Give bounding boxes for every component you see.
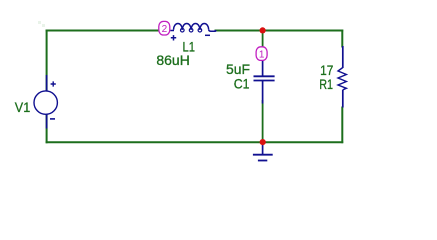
svg-text:86uH: 86uH — [156, 52, 189, 68]
plus mark V1 — [51, 81, 56, 86]
junction dot bottom — [260, 139, 266, 145]
L1 coil hump 3 — [191, 23, 200, 29]
resistor R1 — [338, 46, 346, 108]
node 2 bubble — [159, 21, 170, 35]
wire bottom — [46, 141, 344, 143]
voltage source V1 — [34, 75, 57, 129]
L1 coil tail — [209, 30, 216, 31]
L1 coil loop 3 — [198, 28, 202, 32]
minus mark V1 — [50, 118, 55, 120]
wire right lower — [341, 107, 343, 144]
wire left — [46, 30, 48, 144]
ground bar short — [258, 160, 267, 162]
wire right — [341, 30, 343, 48]
L1 coil loop 2 — [189, 28, 193, 32]
L1 coil loop 1 — [181, 28, 185, 32]
wire top — [46, 30, 161, 32]
grid artifact — [38, 21, 45, 27]
ground bar long — [253, 154, 273, 156]
node 1 bubble — [256, 47, 267, 61]
L1 left stub — [170, 30, 174, 32]
capacitor C1 — [254, 60, 275, 104]
V1 top lead — [46, 75, 48, 92]
R1 zigzag body — [338, 68, 346, 90]
ground — [253, 144, 273, 161]
svg-text:V1: V1 — [15, 99, 31, 115]
C1 top lead — [262, 60, 264, 76]
inductor L1 — [170, 23, 216, 32]
svg-text:R1: R1 — [319, 76, 333, 92]
wire top right — [215, 30, 344, 32]
R1 bottom lead — [342, 90, 344, 108]
L1 right stub — [215, 30, 217, 32]
L1 coil hump 1 — [174, 23, 183, 29]
wire capacitor branch top — [262, 31, 264, 49]
C1 bottom lead — [262, 81, 264, 104]
ground lead — [262, 144, 264, 155]
L1 coil hump 4 — [200, 23, 209, 29]
L1 coil hump 2 — [182, 23, 191, 29]
svg-text:C1: C1 — [234, 76, 250, 92]
svg-text:1: 1 — [259, 49, 265, 60]
wire capacitor branch bottom — [262, 100, 264, 142]
V1 bottom lead — [46, 114, 48, 129]
svg-text:2: 2 — [162, 24, 168, 35]
C1 bottom plate — [254, 80, 275, 82]
plus mark L1 — [171, 35, 176, 40]
R1 top lead — [342, 46, 344, 68]
junction dot top — [260, 27, 266, 33]
minus mark L1 — [205, 34, 210, 36]
C1 top plate — [254, 75, 275, 77]
V1 circle body — [34, 91, 57, 114]
